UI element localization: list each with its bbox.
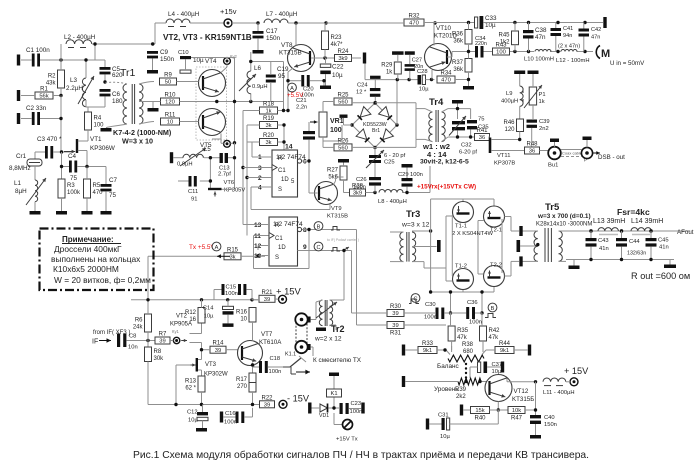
ground C7 <box>101 211 112 215</box>
svg-text:C15: C15 <box>226 285 237 291</box>
ground L9 <box>514 71 525 75</box>
wire VT8 col <box>295 23 297 46</box>
wire IC1 pin6 net <box>302 160 309 162</box>
wire tank <box>251 52 284 111</box>
svg-text:3: 3 <box>258 165 262 172</box>
wire rail15 low <box>131 299 258 301</box>
wire VT6 drain <box>222 188 235 190</box>
svg-text:+ 15V: + 15V <box>276 286 302 297</box>
waveform pulse B2 <box>485 314 496 318</box>
svg-text:C3 470 *: C3 470 * <box>37 136 62 143</box>
terminal input-2 <box>17 90 20 101</box>
svg-text:180: 180 <box>112 98 123 105</box>
svg-text:3k: 3k <box>265 140 271 146</box>
wire Tr2 conn <box>316 251 344 331</box>
svg-text:36k: 36k <box>453 38 464 44</box>
svg-text:12 *: 12 * <box>356 90 367 96</box>
svg-text:К10х6х5 2000НМ: К10х6х5 2000НМ <box>53 264 119 274</box>
wire bus234 down <box>234 143 236 190</box>
svg-text:C43: C43 <box>598 238 609 244</box>
svg-text:C6: C6 <box>112 91 121 98</box>
node L5-C11 <box>209 156 212 183</box>
node C13 right <box>233 156 236 159</box>
node 44 <box>93 42 154 45</box>
node R35 bal <box>443 348 446 351</box>
svg-text:680: 680 <box>463 349 474 355</box>
capacitor C7 <box>101 177 118 199</box>
wire +15vrx riser <box>402 166 430 193</box>
wire C7 gnd <box>105 191 107 211</box>
wire C45 <box>650 231 652 260</box>
svg-text:R3: R3 <box>67 183 75 189</box>
resistor R28 <box>350 184 366 197</box>
node pin10 <box>257 254 260 257</box>
wire R13 down <box>201 392 203 405</box>
wire C41 <box>555 23 557 52</box>
svg-text:6: 6 <box>303 159 307 166</box>
svg-text:10µ: 10µ <box>332 72 343 79</box>
wire rail right <box>483 22 603 24</box>
svg-text:R40: R40 <box>474 416 486 422</box>
wire VT5 emit <box>212 134 221 140</box>
svg-text:R29: R29 <box>381 63 393 69</box>
inductor L3 variable <box>66 76 94 107</box>
svg-text:C17: C17 <box>266 28 278 35</box>
resistor R42 <box>480 326 501 341</box>
capacitor C39 <box>527 119 550 132</box>
svg-text:R14: R14 <box>212 341 224 347</box>
svg-text:VT10: VT10 <box>436 25 452 32</box>
svg-text:24k: 24k <box>133 325 144 331</box>
svg-text:13: 13 <box>254 222 262 229</box>
svg-text:150n: 150n <box>266 35 281 42</box>
resistor R45 <box>498 31 518 45</box>
svg-text:11: 11 <box>254 233 261 240</box>
wire C25 <box>374 148 376 178</box>
wire C18 <box>253 366 284 368</box>
wire level row <box>405 381 487 383</box>
svg-text:6-20 pf: 6-20 pf <box>459 150 477 156</box>
wire C11 left <box>178 180 189 182</box>
svg-text:6 - 20 pf: 6 - 20 pf <box>384 153 406 159</box>
svg-text:R24: R24 <box>337 49 349 55</box>
svg-text:C12: C12 <box>187 410 198 416</box>
node tank bottom <box>456 135 473 138</box>
power symbol +15VTx <box>343 420 353 430</box>
svg-text:R9: R9 <box>164 73 172 79</box>
svg-text:R: R <box>275 223 280 229</box>
wire R40 <box>463 409 508 411</box>
wire mic row <box>462 51 593 53</box>
wire tank bottom <box>453 130 475 138</box>
svg-text:C21: C21 <box>296 98 307 104</box>
svg-text:VD1: VD1 <box>319 413 329 419</box>
wire R12 top <box>201 300 203 308</box>
svg-text:C2 33n: C2 33n <box>26 105 47 112</box>
capacitor C4 <box>68 153 78 182</box>
capacitor C44 <box>616 238 646 257</box>
svg-text:39: 39 <box>392 323 398 329</box>
node Tr5 left <box>536 243 539 246</box>
svg-text:R4: R4 <box>94 116 102 122</box>
terminal out end <box>670 258 672 260</box>
svg-text:1k2: 1k2 <box>500 39 510 45</box>
svg-text:3k9: 3k9 <box>338 56 347 62</box>
wire VT12 col <box>507 379 536 382</box>
terminal rail end <box>603 17 606 28</box>
ground R5 <box>82 211 93 215</box>
svg-text:C44: C44 <box>629 239 640 245</box>
node C20 <box>286 79 325 82</box>
svg-text:R30: R30 <box>390 304 402 310</box>
wire VT10 col <box>433 23 435 46</box>
terminal input-3 <box>17 113 20 124</box>
wire coax gnd <box>586 140 588 147</box>
wire C38 <box>528 23 530 52</box>
svg-text:K1: K1 <box>330 391 337 397</box>
svg-text:39: 39 <box>264 403 270 409</box>
wire P1 <box>532 74 534 119</box>
svg-text:R10: R10 <box>164 93 176 99</box>
node VD1 <box>332 406 335 409</box>
node C28 <box>430 78 433 81</box>
wire IC2 pin13 <box>243 224 262 226</box>
node C17 <box>256 21 259 24</box>
svg-text:S: S <box>278 187 282 193</box>
wire R33 <box>405 346 452 355</box>
wire C20 <box>288 81 324 86</box>
svg-text:100n: 100n <box>224 420 237 426</box>
wire C21 <box>308 122 310 193</box>
svg-text:Tr4: Tr4 <box>429 97 444 108</box>
wire top-44 <box>92 23 155 44</box>
node VT11 drain <box>518 138 521 141</box>
node carrier row <box>396 78 411 81</box>
wire R47 out <box>525 382 536 415</box>
wire R10-mid <box>180 101 251 103</box>
balance pot R38 <box>448 342 484 362</box>
svg-text:1k: 1k <box>265 109 271 115</box>
svg-text:M: M <box>601 48 610 60</box>
capacitor C43 <box>586 238 609 252</box>
wire C15 <box>214 290 252 300</box>
arrow IF in <box>99 340 111 342</box>
wire C27 <box>409 55 411 80</box>
wire R21 out <box>258 298 278 301</box>
wire C36 out <box>475 312 482 314</box>
node VT7 emit <box>251 363 254 366</box>
terminal VD1 left <box>308 403 311 414</box>
terminal L5 left <box>170 152 173 163</box>
resistor R34 <box>437 71 455 84</box>
svg-text:(2 x 47n): (2 x 47n) <box>558 44 580 50</box>
svg-text:DSB - out: DSB - out <box>598 154 625 161</box>
transformer Tr2 <box>316 300 337 326</box>
resistor R15 <box>224 247 241 260</box>
resistor R14 <box>210 341 226 354</box>
wire C24 <box>374 79 376 103</box>
node bus243 <box>241 166 248 179</box>
wire VT7 emit2 <box>252 363 254 374</box>
svg-text:560: 560 <box>338 146 348 152</box>
capacitor C19 <box>266 66 289 83</box>
svg-text:100n: 100n <box>424 315 437 321</box>
svg-text:R33: R33 <box>422 341 434 347</box>
svg-text:94n: 94n <box>563 33 572 39</box>
svg-text:100: 100 <box>94 123 105 129</box>
node C3-gate <box>60 150 63 153</box>
svg-text:R48: R48 <box>526 142 538 148</box>
wire rail15 c <box>288 22 404 24</box>
svg-text:C9: C9 <box>160 49 169 56</box>
wire R34 right <box>455 79 469 81</box>
dashed box oscillator <box>196 67 227 140</box>
node circle C bottom <box>411 294 420 303</box>
wire R30 in <box>352 312 388 314</box>
wire VT9 base <box>309 192 318 194</box>
svg-text:47k: 47k <box>457 335 468 341</box>
supply +15V mid <box>279 295 287 303</box>
node mixer v <box>449 290 484 314</box>
wire R17 down <box>252 392 254 405</box>
svg-text:w=2 x 12: w=2 x 12 <box>314 336 342 343</box>
wire pin10 <box>258 255 262 257</box>
svg-text:L6: L6 <box>254 65 262 72</box>
capacitor C33 electrolytic <box>475 15 498 29</box>
wire VT10e <box>431 70 433 79</box>
capacitor C22 electrolytic <box>320 64 344 80</box>
wire out right <box>669 260 671 265</box>
svg-text:10k: 10k <box>512 408 521 414</box>
wire VT7 col <box>252 322 254 341</box>
svg-text:C16: C16 <box>225 411 236 417</box>
wire VT12 emit <box>497 402 499 411</box>
svg-text:VT2, VT3 - KR159NT1B: VT2, VT3 - KR159NT1B <box>163 33 252 42</box>
resistor R48 <box>525 142 540 155</box>
svg-text:KT315B: KT315B <box>279 50 302 57</box>
svg-text:R37: R37 <box>452 60 464 66</box>
resistor R11 <box>161 113 180 126</box>
wire VR1 <box>323 102 342 148</box>
transistor VT2 fet <box>182 340 188 342</box>
svg-text:VT4: VT4 <box>205 58 217 65</box>
node VT12 emit <box>497 408 500 411</box>
svg-text:VT8: VT8 <box>281 42 293 49</box>
wire bus243 <box>243 111 247 236</box>
wire IC1 pin3 <box>243 167 265 169</box>
svg-text:R16: R16 <box>236 309 248 315</box>
svg-text:Р: Р <box>584 158 587 163</box>
capacitor C8 <box>117 334 138 351</box>
node L3 top <box>84 58 87 61</box>
wire R14 <box>202 349 239 351</box>
svg-text:L11 - 400µH: L11 - 400µH <box>543 390 575 396</box>
inductor L5 variable <box>177 147 211 168</box>
capacitor C17 <box>253 28 281 42</box>
transistor VT9 <box>315 182 338 205</box>
resistor R19 <box>260 116 278 129</box>
wire IC2 pin9 net <box>302 251 352 314</box>
svg-text:A: A <box>215 245 219 251</box>
wire VT3 gate <box>176 365 191 405</box>
wire osc bus <box>234 58 236 143</box>
svg-text:C36: C36 <box>467 300 478 306</box>
capacitor C28 <box>417 69 429 93</box>
svg-text:R36: R36 <box>452 31 464 37</box>
svg-text:100n: 100n <box>225 291 238 297</box>
transistor VT1 fet <box>64 130 115 166</box>
resistor R32 <box>404 14 424 27</box>
inductor L4 <box>166 11 200 27</box>
svg-text:39: 39 <box>215 348 221 354</box>
wire VT10 base <box>447 52 462 58</box>
svg-text:VT6: VT6 <box>224 180 235 186</box>
node rail15 low <box>146 298 253 301</box>
wire R31 in <box>357 324 388 326</box>
wire R30 out <box>404 312 435 314</box>
svg-text:C28: C28 <box>417 69 428 75</box>
wire C11 stem <box>200 158 211 189</box>
svg-text:100n: 100n <box>469 320 482 326</box>
wire mixer gates T2 <box>478 221 484 275</box>
ground C12 <box>196 428 207 432</box>
wire R21b <box>251 299 253 301</box>
svg-text:C33: C33 <box>485 15 497 22</box>
svg-text:L1: L1 <box>14 180 22 187</box>
svg-text:R17: R17 <box>236 377 248 383</box>
terminal bal left <box>402 345 405 356</box>
svg-text:U in = 50mV: U in = 50mV <box>610 60 645 67</box>
terminal input-1 <box>17 55 20 66</box>
svg-text:3k9: 3k9 <box>353 191 362 197</box>
svg-text:B: B <box>317 224 321 230</box>
svg-text:+15V Tx: +15V Tx <box>336 437 358 443</box>
wire out bottom rail <box>566 260 674 266</box>
resistor R10 <box>161 93 180 106</box>
svg-text:Рис.1 Схема модуля обработки с: Рис.1 Схема модуля обработки сигналов ПЧ… <box>133 449 589 461</box>
wire Bu1 gnd <box>554 142 556 147</box>
svg-text:1k: 1k <box>386 70 393 76</box>
resistor R22 <box>260 395 275 408</box>
coax jack K-1 lower <box>295 341 310 353</box>
capacitor C15 <box>222 284 247 297</box>
svg-text:L2 - 400µH: L2 - 400µH <box>64 34 96 41</box>
svg-text:L8 - 400µH: L8 - 400µH <box>378 199 407 205</box>
svg-text:10µ: 10µ <box>440 434 450 440</box>
svg-text:IF: IF <box>92 339 98 346</box>
svg-text:150n: 150n <box>160 56 175 63</box>
wire mixer rail bottom <box>431 287 494 293</box>
svg-text:T1-2: T1-2 <box>455 264 467 270</box>
svg-text:C39: C39 <box>539 119 550 125</box>
resistor R7 <box>155 332 170 345</box>
terminal C16 <box>220 412 223 423</box>
svg-text:VT3: VT3 <box>205 362 217 368</box>
svg-text:R23: R23 <box>331 35 343 41</box>
svg-text:L10 100mH: L10 100mH <box>524 57 554 63</box>
node circle B bottom <box>488 303 497 312</box>
resistor R25 <box>334 93 352 106</box>
wire C22 <box>325 58 327 86</box>
arrow R15 <box>217 255 230 257</box>
svg-text:KP305V: KP305V <box>224 188 245 194</box>
svg-text:Уровень: Уровень <box>434 386 459 393</box>
wire VT3 source <box>198 370 202 376</box>
svg-text:10µ: 10µ <box>419 87 429 93</box>
svg-text:3k: 3k <box>229 255 235 261</box>
svg-text:10: 10 <box>240 316 247 322</box>
ic U2 74F74 second half <box>254 217 307 266</box>
waveform pulse B <box>331 227 340 231</box>
wire R48 out <box>540 150 549 152</box>
capacitor C5 <box>100 66 124 79</box>
capacitor C3 <box>37 136 62 159</box>
wire C2 <box>21 96 61 152</box>
wire VT9 col <box>334 177 344 185</box>
ground C22 <box>320 86 331 90</box>
supply -15V <box>279 400 287 408</box>
wire VT11 source <box>491 150 525 152</box>
transformer Tr4 <box>416 109 453 142</box>
node circle A top <box>288 83 297 92</box>
wire R21 in <box>274 296 276 298</box>
wire +15vtx <box>334 413 342 425</box>
wire C16 <box>223 408 253 417</box>
svg-text:R47: R47 <box>511 416 523 422</box>
node R23 bottom <box>323 56 326 59</box>
capacitor C38 <box>523 27 547 41</box>
resistor R23 <box>322 31 344 50</box>
svg-text:270: 270 <box>237 384 248 390</box>
svg-text:9: 9 <box>303 244 307 251</box>
ground C29 <box>402 164 413 168</box>
wire ring right up <box>365 64 416 126</box>
node out rail2 <box>620 229 653 232</box>
wire R1 <box>21 95 61 97</box>
node pin6 <box>307 159 310 162</box>
wire C4 row <box>62 152 107 184</box>
inductor L8 <box>378 190 407 205</box>
svg-text:Br1: Br1 <box>372 128 380 134</box>
transistor VT12 <box>485 375 512 402</box>
svg-text:w=3 x 700 (d=0.1): w=3 x 700 (d=0.1) <box>537 213 591 220</box>
svg-text:R7: R7 <box>159 332 167 338</box>
resistor R30 <box>387 304 404 317</box>
terminal C23 right <box>361 403 364 414</box>
wire R20 net <box>247 125 284 150</box>
svg-text:120: 120 <box>504 127 515 133</box>
wire C37 <box>470 367 501 378</box>
svg-text:L3: L3 <box>70 77 78 84</box>
transistor VT7 <box>238 341 263 366</box>
svg-text:Fsr=4kc: Fsr=4kc <box>617 207 650 217</box>
wire K1 <box>333 376 335 408</box>
svg-text:2.7pf: 2.7pf <box>218 172 231 178</box>
resistor R27 <box>327 166 347 181</box>
wire R18 net <box>243 110 288 112</box>
svg-text:C24: C24 <box>357 83 368 89</box>
node C5-C6 <box>103 80 106 83</box>
svg-text:Ку2: Ку2 <box>230 54 238 59</box>
resistor R40 <box>471 407 490 422</box>
ground R29 top <box>392 51 404 55</box>
svg-text:VT12: VT12 <box>514 388 529 395</box>
wire IC1 pin1 <box>252 142 265 157</box>
coupling Ky3 <box>224 140 231 147</box>
svg-text:C19: C19 <box>277 66 289 73</box>
diode VD1 <box>319 404 329 420</box>
svg-text:C8: C8 <box>129 334 136 340</box>
